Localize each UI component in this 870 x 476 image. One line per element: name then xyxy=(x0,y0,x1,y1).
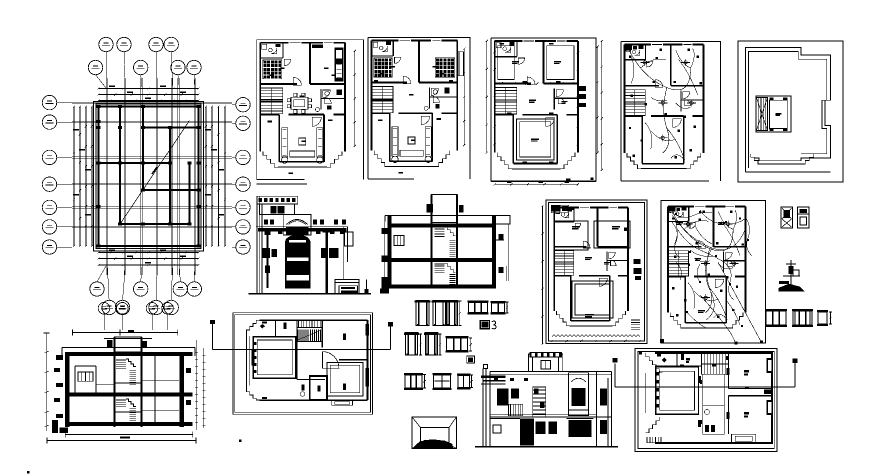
upper stair lower flight hatch xyxy=(449,240,455,256)
bedroom dividing wall xyxy=(624,85,658,87)
plan H central room ticks xyxy=(254,342,256,345)
parapet band with dark coping blocks xyxy=(257,196,298,204)
terrace bottom wall xyxy=(745,171,830,173)
left dark window block xyxy=(262,248,266,258)
plan H door tag top xyxy=(283,323,286,330)
plan I central left room double outline xyxy=(656,367,699,414)
exterior walls xyxy=(495,40,523,42)
door panel detail with X brace xyxy=(781,207,793,228)
toilet top-left fixtures xyxy=(262,44,267,49)
tower black window blocks xyxy=(427,204,434,213)
grid bubbles bottom row inner xyxy=(90,282,104,296)
toilet right-middle walls xyxy=(723,252,725,272)
plan F sawtooth compound line xyxy=(552,335,640,338)
plan outer border xyxy=(491,38,596,182)
porch steps hatch xyxy=(341,287,355,289)
plan H right rooms divider wall xyxy=(339,359,368,361)
toilet top-left wall xyxy=(624,59,645,61)
window detail W6 xyxy=(457,374,471,376)
terrace-level landscape plan in border xyxy=(233,313,373,415)
stair tower with arch top xyxy=(283,215,311,236)
working plan bottom border bold xyxy=(491,180,596,182)
plan G wire end dots xyxy=(735,342,738,345)
plan F border box xyxy=(546,200,647,344)
stair xyxy=(495,88,517,115)
porch steps right xyxy=(435,151,449,167)
plan H central room double outline xyxy=(253,337,296,379)
porch outline xyxy=(570,325,613,327)
mid wall xyxy=(260,113,279,115)
porch steps left xyxy=(670,313,684,328)
toilet right-middle walls xyxy=(606,251,608,271)
right margin dimension line xyxy=(354,51,356,146)
exterior walls xyxy=(624,43,650,45)
right margin dimension line xyxy=(463,49,465,145)
plan I misc marks xyxy=(639,352,642,355)
entrance door arcs xyxy=(421,116,430,125)
mid wall xyxy=(668,276,685,278)
electrical wiring curves xyxy=(629,50,691,90)
plan I top rooms xyxy=(655,365,701,367)
foundation plan outline xyxy=(99,107,199,247)
stair tower section top xyxy=(114,337,141,352)
entrance door arcs xyxy=(673,119,681,127)
bedroom dividing wall xyxy=(260,83,297,85)
main parapet line xyxy=(490,370,611,372)
switch point specks xyxy=(629,56,631,58)
plan I stepped corner top-left xyxy=(646,353,663,373)
section left footing xyxy=(60,428,69,434)
window detail row W8 xyxy=(792,309,813,311)
terrace outer border xyxy=(738,41,843,182)
sofa set in hall xyxy=(392,127,398,157)
plan I right wall fixtures xyxy=(767,358,774,373)
left slim tower xyxy=(482,369,484,447)
plan H misc ticks xyxy=(262,397,267,399)
vertical grid axes xyxy=(105,78,107,275)
electrical wiring curves xyxy=(672,212,733,251)
bedroom inner outlines xyxy=(498,46,514,80)
left wall window xyxy=(394,235,404,245)
plan I border box xyxy=(635,349,777,452)
plan F water tank top-left xyxy=(552,206,561,212)
ground line xyxy=(249,293,372,295)
toilet right-middle walls xyxy=(320,89,322,110)
upper balcony railing xyxy=(509,404,523,416)
plan H top row rooms xyxy=(260,336,297,338)
stair xyxy=(668,251,689,276)
plan outer border xyxy=(621,42,721,182)
mid landing walls xyxy=(114,382,141,384)
lower stair flights xyxy=(116,399,136,423)
plan I building outline xyxy=(655,353,772,443)
hall walls xyxy=(641,116,643,163)
bottom dimension lines xyxy=(99,252,199,254)
plan F right hatch marks xyxy=(631,319,640,321)
exterior walls xyxy=(668,205,694,207)
left interior window xyxy=(78,372,93,381)
right dark window block xyxy=(321,248,326,258)
plan H bottom-centre toilet rooms xyxy=(297,378,325,380)
switch point specks xyxy=(672,217,674,219)
toilet top-left wall xyxy=(372,55,394,57)
section mid slab xyxy=(65,392,193,396)
plan G label blobs xyxy=(676,222,683,223)
hall walls xyxy=(570,276,572,321)
right pilaster column xyxy=(323,229,332,232)
exterior walls xyxy=(372,40,399,42)
porch steps left xyxy=(627,153,641,169)
parapet thin top line xyxy=(385,214,509,216)
section right wall xyxy=(180,352,185,427)
ground floor dark doors xyxy=(536,421,546,434)
far right upper dark window xyxy=(600,389,607,406)
ground floor plan bottom line xyxy=(257,183,307,185)
section roof slab xyxy=(65,352,193,356)
toilet top-left wall xyxy=(668,220,689,222)
bed top-right xyxy=(435,58,454,77)
entrance door arcs xyxy=(715,279,723,287)
plan I stepped corner bottom-left xyxy=(646,417,660,433)
left pilaster column xyxy=(264,232,270,235)
plan outer border xyxy=(368,38,470,180)
plan H diamond mark xyxy=(260,324,264,328)
toilet top-left fixtures xyxy=(626,46,630,51)
window sill marks on walls xyxy=(695,205,705,207)
toilet fixtures right xyxy=(433,90,437,94)
interior partition lines xyxy=(154,356,156,392)
exterior walls xyxy=(554,206,579,208)
toilet top-left wall xyxy=(554,221,574,223)
upper stair flights xyxy=(116,359,136,384)
upper left dark window xyxy=(497,389,508,406)
horizontal grid axes xyxy=(72,101,232,103)
porch steps right xyxy=(729,313,743,328)
mid wall xyxy=(495,114,513,116)
first floor slab line xyxy=(490,416,611,418)
terrace parapet bottom stepped xyxy=(751,154,762,164)
ceiling fan symbols xyxy=(643,61,646,64)
perspective inner rect xyxy=(421,428,450,445)
ceiling fan symbols xyxy=(686,222,689,225)
toilet top-left fixtures xyxy=(669,208,673,213)
plan H central room left window xyxy=(252,349,255,365)
side elevation drawing xyxy=(249,196,372,293)
first floor electrical plan xyxy=(660,201,766,345)
window detail row W7 xyxy=(765,309,787,311)
stair xyxy=(372,86,393,112)
working plan side marks xyxy=(577,86,586,91)
gate bollard xyxy=(365,279,367,293)
toilet top-left fixtures xyxy=(373,42,378,47)
mid wall xyxy=(624,115,641,117)
stair landing walls xyxy=(770,100,788,128)
low porch wall right xyxy=(335,279,359,293)
porch outline xyxy=(278,166,327,168)
right dimension column xyxy=(195,340,197,430)
dining table xyxy=(291,97,308,109)
bedroom dividing wall xyxy=(554,246,586,248)
plan G bottom-left black mark xyxy=(660,339,664,343)
column marks xyxy=(96,105,100,108)
roof slab xyxy=(388,223,497,227)
porch outline xyxy=(641,168,687,170)
plan H big door arc xyxy=(322,352,339,369)
stair xyxy=(260,88,282,114)
plan I left room ticks xyxy=(657,372,660,376)
dimension ticks around plan xyxy=(495,183,578,185)
ground floor big sliding door xyxy=(569,420,592,437)
plan outer border xyxy=(257,40,364,180)
door panel detail plain xyxy=(798,207,810,228)
stair xyxy=(624,90,645,116)
plan G border box xyxy=(661,201,766,344)
ventilator detail with label 3 xyxy=(480,320,491,330)
left dimension lines xyxy=(73,107,75,247)
stair tower top centre xyxy=(529,354,563,371)
plan H stair hatched flights xyxy=(297,330,322,342)
porch outline xyxy=(388,166,435,168)
toilet right-middle walls xyxy=(553,89,555,110)
window sill marks on walls xyxy=(290,42,301,44)
dimension text marks xyxy=(109,86,115,88)
interior tick marks xyxy=(500,82,502,84)
terrace left wall xyxy=(744,60,746,172)
right wall edge xyxy=(343,227,345,279)
sofa set in hall xyxy=(282,128,288,157)
plan H small heavy room xyxy=(310,376,327,400)
far right lower dark window xyxy=(600,420,607,434)
section grid bubbles xyxy=(98,303,110,315)
grid bubbles bottom row outer xyxy=(102,300,116,314)
right parapet extension xyxy=(496,215,510,224)
window detail row W9 xyxy=(817,310,828,312)
ground floor landscape plan in border xyxy=(635,349,777,452)
toilet top-left fixtures xyxy=(556,209,560,214)
elevation ground line xyxy=(475,446,618,448)
plan H bottom-right tag xyxy=(343,384,346,391)
mid floor slab xyxy=(388,258,497,262)
porch steps right xyxy=(687,153,701,169)
porch steps left xyxy=(497,153,512,169)
section bottom dimension lines xyxy=(65,434,193,436)
column layout plan (top-left) xyxy=(42,37,250,314)
stray speck marks xyxy=(239,440,242,443)
plan F top bedroom inner outlines xyxy=(554,221,588,250)
small ventilator blob xyxy=(466,356,475,364)
plan I centre room xyxy=(703,374,724,406)
left cornice bands xyxy=(481,376,506,378)
right side black fittings xyxy=(499,234,504,240)
corbel blocks under slab xyxy=(266,232,271,235)
section flag right of plan H xyxy=(390,324,392,350)
left edge double line xyxy=(256,196,258,293)
porch outline xyxy=(684,327,729,329)
kitchen counter dark xyxy=(334,47,343,81)
plan I wall ticks xyxy=(700,380,702,384)
dimension bracket xyxy=(459,301,461,326)
upper stair flight xyxy=(434,227,455,237)
plan H left wall xyxy=(246,333,248,389)
tower small window xyxy=(541,361,551,370)
section top dimension bracket xyxy=(73,332,178,334)
section flag left of plan H xyxy=(212,322,214,350)
porch steps right xyxy=(327,151,342,167)
door elevation detail D2 xyxy=(433,301,446,326)
right wall edge xyxy=(610,371,612,446)
door elevation detail D3 xyxy=(447,301,458,326)
first floor working plan with border xyxy=(541,200,647,345)
room label blobs xyxy=(512,61,519,62)
plan H stair treads top xyxy=(297,320,322,327)
terrace floor plan xyxy=(738,41,843,182)
label specks xyxy=(280,68,285,70)
toilet right-middle walls xyxy=(680,91,682,112)
left outside black marks xyxy=(56,355,63,360)
perspective edges xyxy=(412,417,420,427)
plan I bottom-centre toilet xyxy=(703,406,724,435)
plan F bottom dimension ticks xyxy=(552,340,640,342)
plan F right side fittings xyxy=(634,259,641,264)
exterior walls xyxy=(260,42,288,44)
stair xyxy=(554,251,574,276)
porch steps left xyxy=(374,151,388,167)
door detail D5 xyxy=(426,333,438,356)
upper band windows xyxy=(264,220,268,225)
left dimension column xyxy=(46,333,48,431)
grid bubbles top row outer xyxy=(99,37,113,51)
dim text specks xyxy=(507,181,512,183)
porch steps left xyxy=(263,151,278,167)
stair treads xyxy=(756,97,767,130)
dark floor wedge xyxy=(414,440,454,448)
grid bubbles left column xyxy=(42,95,56,109)
hall walls xyxy=(684,277,686,323)
plan H section cut line xyxy=(213,349,391,351)
plan H stepped porch bottom-left xyxy=(247,389,260,401)
plan H top-right room tag xyxy=(343,334,346,341)
right dimension lines xyxy=(205,107,207,247)
toilet right-middle walls xyxy=(429,87,431,108)
plan I stair top-centre xyxy=(701,354,728,375)
entrance door arcs xyxy=(312,117,321,126)
building section drawing xyxy=(380,195,510,294)
toilet top-left fixtures xyxy=(496,43,501,48)
right wall section xyxy=(492,215,496,288)
plan I diamond mark xyxy=(662,358,666,362)
porch steps right xyxy=(612,311,625,326)
right side small blocks xyxy=(186,368,191,373)
porch steps left xyxy=(557,311,570,326)
plan H border box xyxy=(233,313,373,415)
plan F kitchen corner blob xyxy=(624,228,629,232)
window sill marks on walls xyxy=(524,40,535,42)
grid bubbles top row inner xyxy=(88,60,102,74)
plan I AC comb detail xyxy=(647,437,661,443)
window sill marks on walls xyxy=(580,206,589,208)
window sill marks on walls xyxy=(400,40,410,42)
hall walls xyxy=(389,113,391,161)
hall walls xyxy=(278,114,280,161)
section flag right of plan I xyxy=(794,362,796,387)
section parapet lines xyxy=(62,347,195,349)
diagonal brace line xyxy=(120,121,190,225)
toilet fixtures right xyxy=(325,91,329,95)
bedroom dividing wall xyxy=(495,82,531,84)
plan I bottom projection xyxy=(731,434,755,443)
upper-left small marks xyxy=(494,378,498,381)
left wall section xyxy=(388,215,392,288)
foundation outer border xyxy=(94,102,204,252)
3d interior perspective detail xyxy=(412,417,456,448)
corner distribution box xyxy=(625,45,631,49)
stair tower top section xyxy=(432,195,458,223)
bedroom dividing wall xyxy=(668,246,702,248)
plan I section cut line xyxy=(615,386,795,388)
mid wall xyxy=(554,275,570,277)
interior door frame upper xyxy=(74,366,76,392)
lower stair flight xyxy=(434,263,455,286)
longitudinal section drawing xyxy=(44,303,206,444)
kitchen platform top xyxy=(312,44,323,48)
plumbing riser detail xyxy=(790,260,792,285)
toilet top-left wall xyxy=(495,56,517,58)
plan F room labels xyxy=(572,226,580,228)
hall inner nested outlines xyxy=(517,119,554,160)
plan I door tags xyxy=(681,354,684,360)
left outside dimension column xyxy=(384,215,386,293)
section ground slab xyxy=(65,422,193,426)
plan H bottom-right room inner outline xyxy=(327,362,363,396)
plan I top-right room xyxy=(728,353,730,389)
label specks xyxy=(390,66,395,68)
plan H right wall windows xyxy=(366,324,369,336)
bedroom dividing wall xyxy=(372,81,407,83)
left compound wall with gate xyxy=(490,418,520,420)
terrace parapet double wall xyxy=(745,47,830,158)
plan H bottom projection xyxy=(332,400,353,405)
bed top-left xyxy=(263,60,282,79)
plan H stepped porch top-left xyxy=(247,320,260,333)
grid bubbles right column xyxy=(236,98,250,112)
upper mid small window xyxy=(511,389,519,399)
plan H building walls xyxy=(260,319,368,321)
door elevation detail D1 xyxy=(416,301,429,326)
plan G extra wires xyxy=(672,215,745,250)
upper wall and window xyxy=(260,204,295,215)
entrance door arcs xyxy=(546,118,555,127)
terrace stair room xyxy=(756,96,791,132)
window detail W2 xyxy=(491,301,506,303)
window detail W1 xyxy=(467,301,488,303)
door detail D4 xyxy=(406,333,418,356)
plan F left dimension line xyxy=(542,206,544,344)
front elevation drawing xyxy=(475,352,618,446)
right arch window panel xyxy=(569,373,589,416)
porch outline xyxy=(512,168,560,170)
toilet top-left wall xyxy=(260,57,283,59)
ground slab xyxy=(388,285,497,289)
pergola slab band xyxy=(258,228,347,232)
plan I bottom-right room xyxy=(729,395,773,397)
corner distribution box xyxy=(669,207,675,211)
tower dark band below dome xyxy=(286,227,309,235)
top dimension lines xyxy=(99,88,199,90)
window sill marks on walls xyxy=(652,43,662,45)
section flag left of plan I xyxy=(614,364,616,388)
side bed tables xyxy=(374,80,378,84)
central arch dark doorway xyxy=(286,236,311,289)
